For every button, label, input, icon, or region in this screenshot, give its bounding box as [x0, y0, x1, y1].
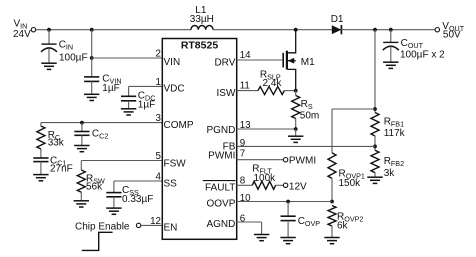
svg-text:2: 2 — [156, 49, 161, 60]
svg-text:AGND: AGND — [206, 219, 235, 230]
svg-text:7: 7 — [240, 148, 245, 159]
svg-text:EN: EN — [164, 223, 178, 234]
wire top rail from L1 to D1 anode — [213, 29, 332, 31]
svg-text:FAULT: FAULT — [205, 182, 235, 193]
resistor RFB1 117k — [371, 113, 379, 137]
ground RSW — [74, 201, 89, 207]
wire RS to PGND node — [295, 119, 297, 130]
wire CVIN branch down — [91, 58, 93, 77]
wire SS pin 4 from IC — [114, 180, 162, 182]
capacitor CC2 — [74, 132, 89, 136]
wire PWMI pin 7 from IC — [237, 159, 284, 161]
svg-text:VDC: VDC — [164, 83, 185, 94]
wire COMP pin 3 from IC — [41, 122, 162, 124]
node junction ISW M1 source RS — [294, 89, 298, 93]
capacitor CDC 1uF — [121, 96, 136, 101]
wire rail down to VIN pin row — [91, 30, 93, 58]
node junction COVP on OOVP line — [286, 200, 290, 204]
wire RC to CC1 — [40, 149, 42, 158]
svg-text:100µF: 100µF — [59, 52, 88, 63]
svg-text:150k: 150k — [339, 178, 362, 189]
svg-text:2.4k: 2.4k — [263, 78, 283, 89]
wire PGND to ground — [295, 129, 297, 136]
svg-text:5: 5 — [156, 151, 162, 162]
svg-text:100k: 100k — [254, 173, 277, 184]
op-amp U1 RT8525 IC body — [162, 39, 236, 240]
ground CC2 — [74, 146, 89, 152]
wire FB pin 9 from IC to FB node — [237, 145, 375, 147]
ground COUT — [383, 62, 398, 68]
svg-text:6k: 6k — [337, 221, 349, 232]
svg-text:33k: 33k — [48, 138, 65, 149]
svg-text:COMP: COMP — [164, 120, 194, 131]
svg-text:1: 1 — [156, 77, 161, 88]
ground CC1 — [33, 175, 48, 181]
capacitor COUT 100uF x 2 polarized — [383, 41, 398, 43]
wire FSW pin 5 from IC — [81, 160, 162, 162]
svg-text:9: 9 — [240, 138, 245, 149]
wire RFB2 to ground — [374, 173, 376, 178]
svg-text:VIN: VIN — [164, 57, 181, 68]
wire VOUT rail down to RFB1 — [374, 30, 376, 113]
svg-text:56k: 56k — [86, 182, 103, 193]
ground CVIN — [84, 94, 99, 100]
resistor RC 33k — [37, 126, 45, 149]
node junction OOVP ROVP2 — [330, 200, 334, 204]
svg-text:FSW: FSW — [164, 158, 187, 169]
svg-text:27nF: 27nF — [50, 163, 73, 174]
wire VDC pin 1 to CDC — [129, 85, 163, 87]
svg-text:M1: M1 — [301, 57, 315, 68]
svg-text:PWMI: PWMI — [289, 156, 316, 167]
node junction M1 drain on rail — [294, 28, 298, 32]
wire CC2 branch down — [81, 123, 83, 132]
wire SS corner down to CSS — [113, 181, 115, 193]
node junction FB node — [373, 145, 377, 149]
svg-text:100µF x 2: 100µF x 2 — [400, 49, 445, 60]
svg-text:12V: 12V — [289, 181, 307, 192]
wire ROVP1 to OOVP node — [331, 178, 333, 201]
node junction ROVP1 tap — [373, 107, 377, 111]
wire RSW to ground — [80, 192, 82, 201]
wire COVP to ground — [287, 221, 289, 238]
node VIN input terminal — [31, 28, 35, 32]
wire CVIN to ground — [91, 81, 93, 94]
wire PGND pin 13 from IC — [237, 128, 296, 130]
wire COUT branch — [390, 30, 392, 43]
chip enable step waveform — [82, 232, 113, 250]
svg-text:Chip Enable: Chip Enable — [75, 221, 130, 232]
wire RSLP to ISW node — [284, 90, 295, 92]
ground CDC — [121, 109, 136, 115]
resistor RFB2 3k — [371, 150, 379, 172]
svg-text:8: 8 — [240, 175, 246, 186]
svg-text:RT8525: RT8525 — [181, 39, 219, 51]
ground RFB2 — [367, 177, 382, 183]
wire FAULT pin 8 from IC — [237, 184, 253, 186]
ground CSS — [106, 208, 121, 214]
svg-text:4: 4 — [156, 172, 162, 183]
wire AGND pin 6 from IC — [237, 221, 262, 223]
node junction CVIN VIN pin — [90, 56, 94, 60]
svg-text:10: 10 — [240, 193, 251, 204]
node junction feedback tap on rail — [373, 28, 377, 32]
capacitor COVP — [281, 216, 296, 220]
wire COVP branch down — [287, 202, 289, 217]
wire FSW corner down to RSW — [80, 161, 82, 171]
capacitor CSS 0.33uF — [106, 193, 121, 197]
node junction CIN on rail — [47, 28, 51, 32]
svg-text:0.33µF: 0.33µF — [122, 194, 153, 205]
transistor M1 NMOS — [283, 31, 296, 89]
node VOUT output terminal — [435, 28, 439, 32]
wire tap across to ROVP1 column — [332, 108, 375, 110]
wire CDC to ground — [128, 101, 130, 109]
svg-text:SS: SS — [164, 179, 178, 190]
svg-text:3k: 3k — [384, 168, 396, 179]
diode D1 — [332, 25, 342, 34]
wire CDC branch down — [128, 86, 130, 96]
wire CC1 to ground — [40, 162, 42, 175]
resistor ROVP2 6k — [328, 206, 336, 227]
wire EN pin 12 to IC — [141, 224, 162, 226]
svg-text:1µF: 1µF — [138, 99, 155, 110]
ground AGND — [254, 235, 269, 241]
capacitor CIN 100uF polarized — [41, 43, 56, 45]
svg-text:33µH: 33µH — [190, 14, 214, 25]
wire top rail from VIN terminal to L1 — [36, 29, 191, 31]
resistor RS 50m — [292, 96, 300, 119]
wire CSS to ground — [113, 197, 115, 208]
node chip enable terminal — [136, 223, 140, 227]
svg-text:PWMI: PWMI — [208, 151, 235, 162]
node 12V terminal — [283, 183, 287, 187]
svg-text:1µF: 1µF — [102, 83, 119, 94]
svg-text:3: 3 — [156, 113, 162, 124]
node junction COUT on rail — [389, 28, 393, 32]
svg-text:24V: 24V — [13, 29, 31, 40]
inductor L1 33uH — [191, 26, 213, 30]
wire DRV pin 14 to M1 gate — [237, 59, 283, 61]
svg-text:OOVP: OOVP — [206, 198, 235, 209]
wire CC2 to ground — [81, 135, 83, 145]
wire top rail from D1 cathode to VOUT terminal — [341, 29, 435, 31]
wire COUT to ground — [390, 46, 392, 62]
capacitor CC1 27nF — [33, 158, 48, 162]
wire ISW pin 11 from IC — [237, 90, 258, 92]
node junction PGND RS — [294, 127, 298, 131]
wire ROVP2 to ground — [331, 226, 333, 238]
svg-text:ISW: ISW — [217, 88, 236, 99]
wire RFB1 to FB node — [374, 136, 376, 150]
wire ROVP1 column down — [331, 109, 333, 153]
wire CIN to ground — [48, 48, 50, 63]
wire COMP corner down to RC — [40, 123, 42, 126]
resistor RSW 56k — [77, 170, 85, 192]
wire OOVP pin 10 from IC — [237, 201, 332, 203]
svg-text:14: 14 — [240, 50, 251, 61]
wire AGND down to ground — [261, 222, 263, 235]
resistor RFLT 100k — [252, 181, 275, 189]
svg-text:DRV: DRV — [214, 57, 235, 68]
node junction CVIN branch on rail — [90, 28, 94, 32]
wire VIN pin 2 to IC — [92, 57, 163, 59]
resistor RSLP 2.4k — [258, 87, 284, 95]
svg-text:12: 12 — [150, 216, 161, 227]
svg-text:D1: D1 — [331, 14, 344, 25]
svg-text:6: 6 — [240, 213, 246, 224]
ground CIN — [41, 63, 56, 69]
wire CIN branch — [48, 30, 50, 44]
node PWMI terminal — [283, 158, 287, 162]
wire ISW node down to RS — [295, 91, 297, 96]
node junction CC2 on COMP — [80, 121, 84, 125]
resistor ROVP1 150k — [328, 153, 336, 179]
svg-text:PGND: PGND — [206, 125, 235, 136]
capacitor CVIN 1uF — [84, 77, 99, 82]
ground ROVP2 — [324, 238, 339, 244]
wire RFLT to 12V terminal — [276, 184, 284, 186]
svg-text:50m: 50m — [300, 110, 319, 121]
svg-text:117k: 117k — [384, 128, 406, 139]
svg-text:50V: 50V — [443, 30, 461, 41]
ground PGND — [288, 136, 303, 142]
ground COVP — [280, 238, 295, 244]
svg-text:11: 11 — [240, 81, 250, 92]
